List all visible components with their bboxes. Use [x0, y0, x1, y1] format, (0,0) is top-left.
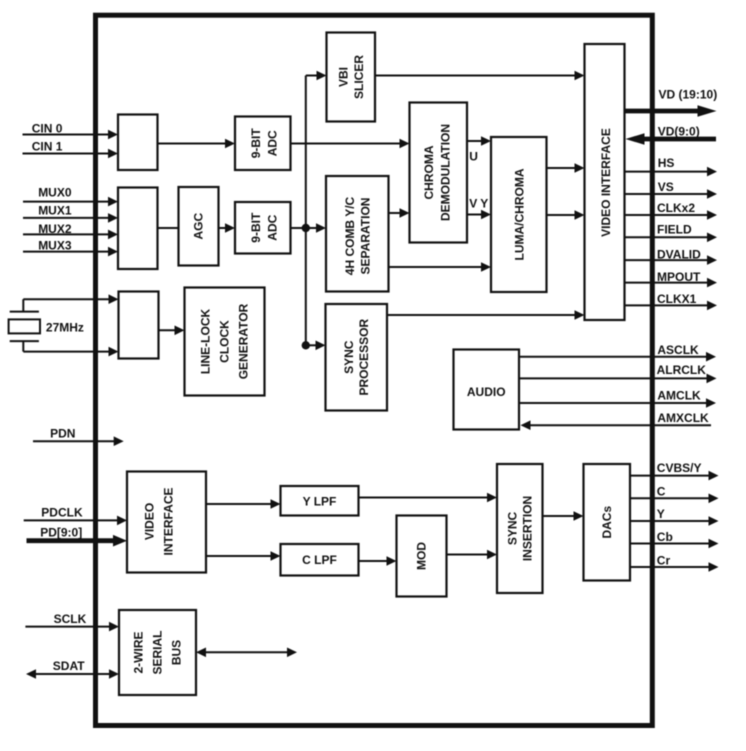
svg-text:Y LPF: Y LPF	[303, 495, 337, 509]
wire clock box to line-lock generator	[159, 326, 185, 336]
wire video interface to C LPF	[206, 551, 281, 561]
wire V Y chroma to luma	[467, 197, 491, 220]
svg-text:MUX1: MUX1	[38, 204, 72, 218]
svg-text:INSERTION: INSERTION	[521, 496, 535, 561]
svg-text:LINE-LOCK: LINE-LOCK	[199, 309, 213, 375]
wire AGC to ADC2	[219, 223, 236, 233]
svg-text:AMCLK: AMCLK	[657, 389, 701, 403]
wire Y LPF to SYNC INSERTION	[359, 493, 498, 503]
svg-text:VD(9:0): VD(9:0)	[658, 124, 700, 138]
svg-text:DVALID: DVALID	[657, 247, 701, 261]
wire MPOUT output	[625, 270, 718, 288]
CIN input mux box	[118, 115, 158, 171]
wire PDCLK input	[24, 506, 127, 526]
svg-text:VBI: VBI	[337, 67, 351, 87]
svg-text:C LPF: C LPF	[302, 553, 337, 567]
svg-text:SDAT: SDAT	[53, 659, 85, 673]
svg-text:MPOUT: MPOUT	[657, 270, 701, 284]
wire PDN input	[33, 426, 124, 446]
svg-text:PDCLK: PDCLK	[41, 506, 83, 520]
wire muxbox to AGC	[158, 227, 179, 229]
wire VBI SLICER to VIDEO INTERFACE	[375, 71, 585, 81]
wire SYNC PROCESSOR to VIDEO INTERFACE	[387, 310, 585, 320]
Y LPF block	[281, 486, 359, 516]
svg-text:U: U	[469, 150, 478, 164]
DACs block	[584, 464, 631, 581]
svg-text:AMXCLK: AMXCLK	[657, 411, 709, 425]
wire Cb output	[630, 530, 719, 549]
wire video interface to Y LPF	[206, 499, 281, 509]
svg-text:CLOCK: CLOCK	[218, 320, 232, 363]
svg-text:ASCLK: ASCLK	[657, 343, 699, 357]
svg-text:BUS: BUS	[170, 640, 184, 665]
CHROMA DEMODULATION block	[410, 103, 468, 243]
wire luma to video interface 1	[547, 163, 585, 173]
svg-text:SYNC: SYNC	[505, 511, 519, 545]
svg-text:2-WIRE: 2-WIRE	[132, 632, 146, 674]
wire MUX3 input	[23, 238, 118, 256]
4H COMB Y/C SEPARATION block	[326, 176, 389, 292]
VIDEO INTERFACE block (right)	[585, 44, 625, 320]
chip outer border	[96, 15, 653, 725]
wire cinmux to ADC1	[158, 139, 236, 149]
svg-text:FIELD: FIELD	[657, 223, 692, 237]
wire Cr output	[630, 554, 719, 572]
clock input box	[119, 292, 159, 359]
svg-text:MUX2: MUX2	[38, 222, 72, 236]
AUDIO block	[454, 350, 520, 430]
wire MOD to SYNC INSERTION	[447, 550, 498, 560]
MUX select box	[118, 188, 158, 270]
wire FIELD output	[625, 223, 718, 242]
junction node at sync processor tap	[302, 341, 310, 349]
MOD block	[397, 516, 447, 597]
wire 4H COMB to LUMA/CHROMA	[389, 262, 492, 272]
wire U chroma to luma	[467, 136, 491, 163]
wire Y output	[630, 507, 719, 526]
svg-text:GENERATOR: GENERATOR	[237, 303, 251, 379]
svg-text:9-BIT: 9-BIT	[249, 128, 263, 159]
svg-text:CLKX1: CLKX1	[657, 292, 697, 306]
wire C output	[630, 485, 719, 503]
svg-text:AUDIO: AUDIO	[467, 385, 506, 399]
LUMA/CHROMA block	[491, 137, 547, 292]
svg-text:VS: VS	[658, 180, 674, 194]
wire crystal bottom to clock mux	[23, 347, 118, 357]
svg-text:VIDEO: VIDEO	[143, 503, 157, 540]
wire ADC1 to CHROMA DEMODULATION	[291, 139, 410, 149]
svg-text:C: C	[657, 485, 666, 499]
svg-text:ALRCLK: ALRCLK	[657, 363, 707, 377]
wire VD (19:10) bus output	[625, 88, 718, 117]
svg-text:MUX0: MUX0	[38, 185, 72, 199]
wire SYNC INSERTION to DACs	[543, 511, 584, 521]
wire ALRCLK output	[519, 363, 717, 383]
wire SCLK input	[25, 612, 119, 631]
wire PD[9:0] bus input	[27, 525, 128, 546]
9-BIT ADC U2 (second)	[235, 202, 291, 254]
wire tap to VBI SLICER	[306, 71, 327, 81]
svg-text:AGC: AGC	[192, 213, 206, 240]
SYNC INSERTION block	[497, 464, 543, 593]
svg-text:Cr: Cr	[657, 554, 671, 568]
VIDEO INTERFACE block (left)	[127, 472, 206, 573]
SYNC PROCESSOR block	[326, 304, 388, 411]
wire DVALID output	[625, 247, 718, 265]
svg-text:CIN 1: CIN 1	[32, 140, 63, 154]
svg-text:PD[9:0]: PD[9:0]	[40, 525, 82, 539]
AGC block	[179, 187, 219, 266]
svg-text:VD (19:10): VD (19:10)	[659, 88, 718, 102]
svg-text:9-BIT: 9-BIT	[249, 212, 263, 243]
wire SDAT bidirectional	[26, 659, 119, 679]
wire 4H COMB to CHROMA DEMOD	[389, 208, 410, 218]
svg-text:CVBS/Y: CVBS/Y	[657, 461, 702, 475]
svg-text:4H COMB Y/C: 4H COMB Y/C	[343, 196, 357, 275]
svg-text:PROCESSOR: PROCESSOR	[357, 319, 371, 396]
crystal 27MHz	[9, 299, 84, 351]
wire CLKX1 output	[625, 292, 718, 310]
vertical distribution wire	[305, 76, 307, 346]
wire MUX0 input	[23, 185, 118, 206]
wire crystal top to clock mux	[23, 294, 118, 304]
wire VS output	[625, 180, 718, 199]
wire MUX2 input	[23, 222, 118, 239]
wire MUX1 input	[23, 204, 118, 223]
svg-text:Cb: Cb	[657, 530, 673, 544]
svg-text:HS: HS	[658, 156, 675, 170]
wire CLKx2 output	[625, 201, 718, 220]
svg-text:Y: Y	[657, 507, 665, 521]
C LPF block	[281, 544, 359, 576]
svg-text:DACs: DACs	[600, 506, 614, 539]
svg-text:SYNC: SYNC	[342, 340, 356, 374]
wire CIN0 input	[23, 122, 119, 140]
svg-text:LUMA/CHROMA: LUMA/CHROMA	[513, 168, 527, 260]
svg-text:V Y: V Y	[469, 197, 488, 211]
svg-text:MOD: MOD	[415, 542, 429, 570]
wire serial bus bidirectional stub	[196, 648, 297, 658]
svg-text:DEMODULATION: DEMODULATION	[438, 124, 452, 221]
svg-text:CLKx2: CLKx2	[657, 201, 695, 215]
wire ADC2 to 4H COMB	[291, 223, 327, 233]
junction node on ADC2 output	[302, 224, 310, 232]
svg-text:SCLK: SCLK	[54, 612, 87, 626]
wire CIN1 input	[23, 140, 119, 159]
wire AMCLK output	[519, 389, 716, 408]
svg-text:ADC: ADC	[265, 130, 279, 156]
wire HS output	[625, 156, 718, 177]
wire tap to SYNC PROCESSOR	[306, 341, 326, 351]
LINE-LOCK CLOCK GENERATOR block	[185, 288, 265, 396]
wire VD(9:0) bus input	[626, 124, 717, 145]
svg-text:PDN: PDN	[50, 426, 75, 440]
wire luma to video interface 2	[547, 210, 585, 220]
svg-text:ADC: ADC	[265, 214, 279, 240]
VBI SLICER block	[327, 33, 376, 122]
svg-text:SLICER: SLICER	[352, 55, 366, 99]
svg-text:27MHz: 27MHz	[46, 320, 84, 334]
svg-text:CHROMA: CHROMA	[422, 145, 436, 199]
wire ASCLK output	[519, 343, 716, 362]
9-BIT ADC U1 (top)	[235, 117, 291, 171]
svg-text:CIN 0: CIN 0	[32, 122, 63, 136]
svg-text:VIDEO INTERFACE: VIDEO INTERFACE	[599, 128, 613, 237]
wire C LPF to MOD	[359, 556, 397, 566]
wire CVBS/Y output	[630, 461, 719, 481]
2-WIRE SERIAL BUS block	[119, 610, 196, 695]
svg-text:SEPARATION: SEPARATION	[358, 198, 372, 275]
svg-text:MUX3: MUX3	[38, 238, 72, 252]
svg-text:SERIAL: SERIAL	[151, 630, 165, 674]
wire AMXCLK input	[521, 411, 712, 430]
svg-text:INTERFACE: INTERFACE	[162, 487, 176, 555]
